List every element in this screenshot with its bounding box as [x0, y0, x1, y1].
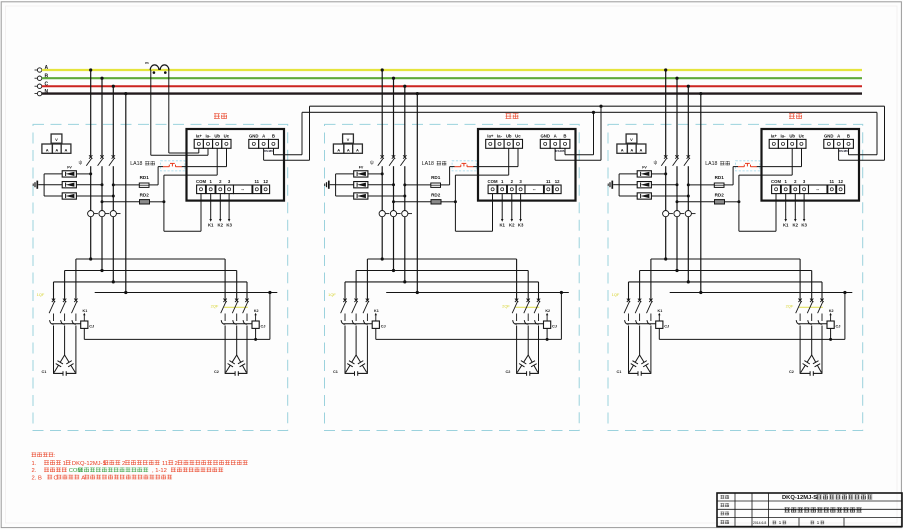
svg-text:2: 2	[122, 461, 125, 467]
svg-text:B: B	[563, 133, 566, 138]
svg-text:RS485: RS485	[264, 149, 274, 153]
terminals COM 1 2 3, controller U2	[488, 179, 525, 194]
svg-text:, 1-12: , 1-12	[152, 468, 167, 474]
wire arrester FV1 to phase, section 3	[619, 172, 667, 175]
voltmeter V, section 3	[626, 134, 637, 143]
surge arrester FV1, section 3	[637, 171, 651, 177]
breaker 1QF pole 3, section 3	[647, 299, 653, 321]
surge arrester FV2, section 3	[637, 182, 651, 188]
wire contact row to CJ1 coil, section 2	[343, 323, 372, 325]
ammeter A1, section 2	[333, 144, 344, 153]
trip line 2QF (yellow), section 1	[224, 306, 248, 308]
svg-text:2. B: 2. B	[32, 475, 42, 481]
svg-text:K2: K2	[545, 309, 550, 313]
ground symbol, section 3	[608, 181, 619, 189]
wire output K1 from controller U1	[208, 194, 214, 228]
wire arrester FV3 to phase, section 1	[44, 195, 115, 198]
wire branch 2 poles down to capacitor, section 1	[225, 326, 247, 374]
wire arrester FV1 to phase, section 1	[44, 172, 92, 175]
svg-text:12: 12	[555, 179, 560, 184]
wire lower bus neutral, section 1	[95, 291, 278, 294]
svg-text:RD1: RD1	[715, 175, 725, 180]
contactor CJ1 contact pole 2, section 3	[636, 320, 640, 324]
node C (phase C terminal)	[35, 81, 49, 88]
svg-text:RS485: RS485	[839, 149, 849, 153]
svg-text:11: 11	[255, 179, 260, 184]
breaker 1QF pole 1, section 2	[341, 299, 347, 321]
contactor coil CJ1, section 2	[372, 321, 385, 329]
svg-text:ψ: ψ	[79, 160, 83, 166]
wire phase A drop, section 2	[381, 68, 384, 259]
wire arrester tie, section 2	[335, 174, 337, 196]
ground symbol, section 2	[325, 181, 336, 189]
wire RD2 to Ub terminal, section 1	[164, 148, 217, 202]
svg-text:V: V	[55, 137, 58, 142]
wire phase B bus (green)	[42, 77, 862, 79]
wire phase B drop, section 3	[675, 77, 678, 271]
wire phase C to RD1 to LA18, section 1	[112, 167, 163, 187]
breaker 1QF pole 1, section 3	[624, 299, 630, 321]
current ring TA1, section 3	[663, 211, 673, 217]
svg-text:--: --	[241, 187, 244, 192]
wire contact row to CJ2 coil, section 3	[798, 323, 827, 325]
wire branch 1 poles down to capacitor, section 3	[629, 326, 651, 374]
contactor CJ2 contact pole 3, section 1	[243, 320, 247, 324]
voltmeter V, section 2	[343, 134, 354, 143]
wire neutral N bus (black)	[42, 92, 862, 94]
svg-text:A: A	[356, 147, 359, 152]
svg-text:K2: K2	[509, 222, 515, 227]
ammeter A2, section 2	[344, 144, 353, 153]
title block row labels	[721, 495, 730, 524]
company name	[785, 507, 862, 512]
contactor CJ1 contact pole 3, section 1	[72, 320, 76, 324]
breaker 1QF pole 2, section 1	[60, 299, 66, 321]
wire phase C to RD1 to LA18, section 3	[687, 167, 738, 187]
section boundary box 1 (dashed)	[33, 124, 288, 430]
svg-text:--: --	[816, 187, 819, 192]
svg-text:GND: GND	[540, 133, 550, 138]
wire output K2 from controller U2	[509, 194, 515, 228]
fuse RD2, section 2	[431, 200, 441, 204]
svg-text:2QF: 2QF	[211, 304, 219, 309]
svg-text:V: V	[630, 137, 633, 142]
wire RD2 to Ub terminal, section 3	[739, 148, 792, 202]
terminals Ia+ Ia- Ub Uc, controller U2	[486, 133, 523, 148]
svg-text:K3: K3	[226, 222, 232, 227]
svg-text:A: A	[81, 475, 85, 481]
breaker QS pole B, section 3	[673, 155, 679, 166]
wire lower bus phase B, section 2	[356, 269, 528, 300]
wire arrester FV2 to phase, section 3	[619, 183, 678, 186]
svg-text:Uc: Uc	[799, 133, 805, 138]
svg-text:Ia-: Ia-	[497, 133, 503, 138]
svg-text:B: B	[272, 133, 275, 138]
contactor coil CJ2, section 3	[827, 321, 840, 329]
svg-text:1QF: 1QF	[328, 292, 336, 297]
svg-text:11: 11	[162, 461, 168, 467]
svg-text:RD2: RD2	[431, 193, 441, 198]
wire LA18 to Uc terminal, section 2	[473, 148, 518, 166]
svg-text:1QF: 1QF	[37, 292, 45, 297]
current ring TA2, section 2	[390, 211, 400, 217]
ammeter A2, section 1	[52, 144, 61, 153]
surge arrester FV3, section 1	[62, 193, 76, 199]
wire branch 1 poles down to capacitor, section 1	[54, 326, 76, 374]
svg-text:Ia+: Ia+	[196, 133, 203, 138]
wire neutral N drop, section 3	[699, 92, 702, 293]
svg-text:K3: K3	[518, 222, 524, 227]
svg-text:COM: COM	[196, 179, 206, 184]
breaker QS pole A, section 1	[86, 155, 92, 166]
svg-text:A: A	[837, 133, 840, 138]
svg-text:12: 12	[838, 179, 843, 184]
section boundary box 2 (dashed)	[325, 124, 580, 430]
wire contact row to CJ2 coil, section 1	[223, 323, 252, 325]
wire phase A drop, section 1	[89, 68, 92, 259]
wire RD2 to Ub terminal, section 2	[455, 148, 508, 202]
breaker 2QF pole 1, section 1	[221, 299, 227, 321]
svg-text:2QF: 2QF	[786, 304, 794, 309]
svg-text:LA18: LA18	[705, 161, 717, 167]
wire phase A bus (yellow)	[42, 69, 862, 71]
svg-text:K2: K2	[218, 222, 224, 227]
capacitor bank C1 (delta), section 3	[617, 355, 652, 376]
contactor CJ2 contact pole 1, section 2	[513, 320, 517, 324]
fuse RD2, section 3	[715, 200, 725, 204]
svg-text:LA18: LA18	[422, 161, 434, 167]
svg-text:B: B	[847, 133, 850, 138]
svg-text:1.: 1.	[32, 461, 37, 467]
svg-text:C2: C2	[789, 370, 794, 374]
current ring TA2, section 3	[674, 211, 684, 217]
junction dots RS485 taps	[599, 105, 602, 108]
contactor CJ1 contact pole 2, section 1	[61, 320, 65, 324]
svg-text:11: 11	[830, 179, 835, 184]
ground symbol, section 1	[33, 181, 44, 189]
wire contact row to CJ2 coil, section 2	[515, 323, 544, 325]
breaker 1QF pole 3, section 1	[72, 299, 78, 321]
svg-text:FV: FV	[67, 165, 72, 169]
svg-text:Uc: Uc	[515, 133, 521, 138]
wire phase B to RD2, section 2	[392, 200, 457, 203]
svg-text:--: --	[533, 187, 536, 192]
breaker 2QF pole 1, section 2	[512, 299, 518, 321]
capacitor bank C1 (delta), section 1	[42, 355, 77, 376]
svg-text:K2: K2	[793, 222, 799, 227]
svg-text:Ia-: Ia-	[780, 133, 786, 138]
wire lower bus phase C, section 1	[54, 280, 248, 299]
contactor CJ1 contact pole 3, section 2	[364, 320, 368, 324]
wire neutral N drop, section 2	[416, 92, 419, 293]
svg-text:CJ: CJ	[89, 324, 94, 329]
current ring TA1, section 2	[379, 211, 389, 217]
svg-text:CJ: CJ	[664, 324, 669, 329]
controller U3 box	[762, 129, 860, 201]
svg-text:CJ: CJ	[836, 324, 841, 329]
svg-text:Ia+: Ia+	[771, 133, 778, 138]
wire K1 to CJ1 coil (arrow), section 3	[658, 309, 663, 321]
svg-text:FV: FV	[359, 165, 364, 169]
svg-text:A: A	[65, 147, 68, 152]
svg-text:A: A	[347, 147, 350, 152]
ammeter A2, section 3	[627, 144, 636, 153]
svg-text:2.: 2.	[32, 468, 37, 474]
contactor CJ2 contact pole 1, section 1	[221, 320, 225, 324]
svg-text:K2: K2	[829, 309, 834, 313]
wire arrester FV2 to phase, section 2	[336, 183, 395, 186]
wire RS485 A to bus, controller U1	[264, 106, 310, 160]
terminal dots box, controller U3	[809, 185, 828, 194]
voltmeter V, section 1	[51, 134, 62, 143]
svg-text:C2: C2	[506, 370, 511, 374]
wire CJ coils to neutral, section 1	[84, 293, 270, 341]
wire arrester FV1 to phase, section 2	[336, 172, 384, 175]
wire branch 1 poles down to capacitor, section 2	[345, 326, 367, 374]
terminals 11 12, controller U3	[828, 179, 845, 194]
contactor CJ1 contact pole 2, section 2	[352, 320, 356, 324]
title block table	[717, 493, 902, 527]
current ring TA3, section 1	[110, 211, 120, 217]
svg-text:COM: COM	[69, 468, 83, 474]
ammeter A1, section 3	[617, 144, 628, 153]
wire phase C drop, section 2	[403, 85, 406, 282]
svg-text:Ub: Ub	[506, 133, 512, 138]
wire output K3 from controller U1	[226, 194, 232, 228]
terminals GND A B, controller U2	[540, 133, 570, 148]
contactor coil CJ1, section 3	[656, 321, 669, 329]
wire contact row to CJ1 coil, section 3	[627, 323, 656, 325]
wire K1 to CJ1 coil (arrow), section 2	[374, 309, 379, 321]
label section name 2 (red)	[506, 113, 519, 119]
wire lower bus phase C, section 3	[629, 280, 823, 299]
sheet count cells	[773, 520, 825, 525]
capacitor bank C2 (delta), section 3	[789, 355, 822, 376]
fuse RD2, section 1	[140, 200, 150, 204]
svg-text:Ub: Ub	[214, 133, 220, 138]
wire phase C drop, section 1	[112, 85, 115, 282]
wire K2 to CJ2 coil (arrow), section 3	[829, 309, 834, 321]
node A (phase A terminal)	[35, 65, 49, 72]
wire RD2 to COM terminal, section 3	[739, 194, 776, 232]
breaker QS pole A, section 2	[378, 155, 384, 166]
svg-text:DKQ-12MJ-S: DKQ-12MJ-S	[72, 461, 107, 467]
breaker 2QF pole 3, section 2	[534, 299, 540, 321]
wire lower bus phase A, section 3	[651, 257, 800, 299]
fuse RD1, section 3	[714, 183, 724, 187]
wire arrester tie, section 3	[618, 174, 620, 196]
wire arrester FV3 to phase, section 2	[336, 195, 407, 198]
current ring TA3, section 2	[402, 211, 412, 217]
svg-text:RD2: RD2	[140, 193, 150, 198]
terminals GND A B, controller U1	[249, 133, 279, 148]
ammeter A3, section 3	[636, 144, 646, 153]
svg-text:K2: K2	[254, 309, 259, 313]
controller U1 box	[187, 129, 285, 201]
breaker QS pole C, section 1	[109, 155, 115, 166]
wire phase B to RD2, section 1	[101, 200, 166, 203]
svg-text:V: V	[347, 137, 350, 142]
label LA18 switch, section 2	[437, 161, 447, 165]
svg-text:C1: C1	[333, 370, 338, 374]
pushbutton LA18 (red), section 2	[452, 161, 476, 171]
breaker 2QF pole 3, section 1	[243, 299, 249, 321]
wire contact row to CJ1 coil, section 1	[52, 323, 81, 325]
svg-text:C: C	[53, 475, 57, 481]
svg-text:11: 11	[546, 179, 551, 184]
wire lower bus neutral, section 3	[670, 291, 853, 294]
svg-text:COM: COM	[771, 179, 781, 184]
contactor CJ1 contact pole 1, section 1	[50, 320, 54, 324]
surge arrester FV2, section 1	[62, 182, 76, 188]
wire RS485 bus A (upper)	[310, 105, 885, 107]
wire output K3 from controller U2	[518, 194, 524, 228]
svg-text:A: A	[262, 133, 265, 138]
contactor coil CJ1, section 1	[81, 321, 94, 329]
wire RS485 A to bus, controller U2	[555, 106, 601, 160]
svg-text:LA18: LA18	[130, 161, 142, 167]
wire lower bus neutral, section 2	[386, 291, 569, 294]
note title 技术说明	[32, 452, 56, 458]
wire lower bus phase A, section 1	[76, 257, 225, 299]
contactor CJ1 contact pole 3, section 3	[647, 320, 651, 324]
breaker 1QF pole 1, section 1	[49, 299, 55, 321]
contactor CJ1 contact pole 1, section 3	[625, 320, 629, 324]
wire K1 to CJ1 coil (arrow), section 1	[83, 309, 88, 321]
wire phase A drop, section 3	[664, 68, 667, 259]
pushbutton LA18 (red), section 1	[161, 161, 185, 171]
wire RS485 A to bus, controller U3	[839, 106, 885, 160]
svg-text:C2: C2	[214, 370, 219, 374]
svg-text:Ia-: Ia-	[205, 133, 211, 138]
wire output K1 from controller U3	[783, 194, 789, 228]
capacitor bank C2 (delta), section 2	[506, 355, 539, 376]
svg-text:2QF: 2QF	[502, 304, 510, 309]
terminals Ia+ Ia- Ub Uc, controller U3	[769, 133, 806, 148]
wire RS485 bus B (lower)	[302, 111, 877, 113]
node B (phase B terminal)	[35, 73, 49, 80]
svg-text:Uc: Uc	[224, 133, 230, 138]
capacitor bank C2 (delta), section 1	[214, 355, 247, 376]
wire CT to Ia+	[169, 70, 199, 153]
contactor coil CJ2, section 1	[252, 321, 265, 329]
breaker 2QF pole 2, section 3	[807, 299, 813, 321]
wire RS485 B to bus, controller U1	[274, 112, 303, 154]
breaker QS pole A, section 3	[661, 155, 667, 166]
title text DKQ-12MJ-S主辅机柜原理接线图	[782, 494, 872, 501]
note line 3	[32, 475, 173, 482]
terminals COM 1 2 3, controller U1	[196, 179, 233, 194]
note line 2	[32, 467, 224, 474]
svg-text:K3: K3	[801, 222, 807, 227]
contactor CJ2 contact pole 2, section 2	[524, 320, 528, 324]
fuse RD1, section 2	[431, 183, 441, 187]
wire RD2 to COM terminal, section 1	[164, 194, 201, 232]
wire CT to Ia-	[151, 70, 208, 155]
svg-text:2014.6.8: 2014.6.8	[753, 521, 766, 525]
wire branch 2 poles down to capacitor, section 3	[800, 326, 822, 374]
wire branch 2 poles down to capacitor, section 2	[517, 326, 539, 374]
svg-text:GND: GND	[824, 133, 834, 138]
wire phase B drop, section 1	[100, 77, 103, 271]
wire LA18 to Uc terminal, section 3	[757, 148, 802, 166]
wire lower bus phase A, section 2	[367, 257, 516, 299]
pushbutton LA18 (red), section 3	[736, 161, 760, 171]
terminals Ia+ Ia- Ub Uc, controller U1	[194, 133, 231, 148]
controller U2 box	[478, 129, 576, 201]
wire phase B to RD2, section 3	[676, 200, 741, 203]
svg-text:C1: C1	[42, 370, 47, 374]
contactor CJ2 contact pole 3, section 3	[818, 320, 822, 324]
contactor CJ2 contact pole 2, section 3	[808, 320, 812, 324]
svg-text:RD1: RD1	[140, 175, 150, 180]
wire arrester FV2 to phase, section 1	[44, 183, 103, 186]
svg-text:A: A	[337, 147, 340, 152]
breaker 1QF pole 2, section 3	[635, 299, 641, 321]
svg-text:A: A	[621, 147, 624, 152]
svg-text:1: 1	[63, 461, 66, 467]
svg-text:FV: FV	[642, 165, 647, 169]
svg-text:GND: GND	[249, 133, 259, 138]
svg-text:1QF: 1QF	[612, 292, 620, 297]
wire arrester tie, section 1	[43, 174, 45, 196]
svg-text:K1: K1	[83, 309, 88, 313]
wire RD2 to COM terminal, section 2	[455, 194, 492, 232]
wire output K3 from controller U3	[801, 194, 807, 228]
surge arrester FV3, section 3	[637, 193, 651, 199]
svg-text:A: A	[554, 133, 557, 138]
terminal dots box, controller U2	[525, 185, 544, 194]
breaker 2QF pole 2, section 2	[524, 299, 530, 321]
wire lower bus phase B, section 3	[640, 269, 812, 300]
trip line 2QF (yellow), section 2	[516, 306, 540, 308]
svg-text:C1: C1	[617, 370, 622, 374]
svg-text:RD1: RD1	[431, 175, 441, 180]
svg-text:ψ: ψ	[654, 160, 658, 166]
svg-text:Ub: Ub	[789, 133, 795, 138]
ammeter A1, section 1	[42, 144, 53, 153]
breaker 1QF pole 3, section 2	[363, 299, 369, 321]
svg-text:A: A	[640, 147, 643, 152]
breaker QS pole B, section 2	[389, 155, 395, 166]
svg-text:RS485: RS485	[555, 149, 565, 153]
surge arrester FV1, section 2	[354, 171, 368, 177]
wire RS485 B to bus, controller U3	[849, 112, 878, 154]
svg-text:12: 12	[263, 179, 268, 184]
wire lower bus phase B, section 1	[65, 269, 237, 300]
svg-text:K1: K1	[208, 222, 214, 227]
node N (neutral terminal)	[35, 89, 49, 96]
breaker 1QF pole 2, section 2	[352, 299, 358, 321]
svg-text:A: A	[630, 147, 633, 152]
svg-text:CJ: CJ	[381, 324, 386, 329]
svg-text:K1: K1	[783, 222, 789, 227]
label section name 3 (red)	[789, 113, 802, 119]
svg-text:COM: COM	[488, 179, 498, 184]
wire neutral N drop, section 1	[124, 92, 127, 293]
svg-text:CJ: CJ	[552, 324, 557, 329]
svg-text:K1: K1	[374, 309, 379, 313]
breaker QS pole B, section 1	[98, 155, 104, 166]
terminals 11 12, controller U2	[544, 179, 561, 194]
svg-text:K1: K1	[658, 309, 663, 313]
label LA18 switch, section 3	[720, 161, 730, 165]
contactor CJ1 contact pole 1, section 2	[341, 320, 345, 324]
label LA18 switch, section 1	[145, 161, 155, 165]
svg-text:Ia+: Ia+	[487, 133, 494, 138]
wire arrester FV3 to phase, section 3	[619, 195, 690, 198]
wire output K2 from controller U3	[793, 194, 799, 228]
